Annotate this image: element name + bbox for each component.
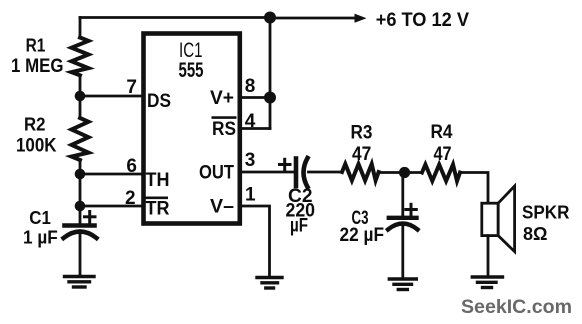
wire R2 bottom to node [79, 160, 82, 174]
svg-text:47: 47 [434, 144, 452, 165]
plus sign C1 [85, 212, 96, 223]
svg-text:R3: R3 [351, 122, 373, 143]
wire node to node [79, 174, 82, 206]
svg-text:22 µF: 22 µF [340, 225, 385, 246]
node junction pin8/supply [264, 92, 276, 104]
capacitor C3 [388, 218, 418, 278]
arrowhead supply [355, 14, 367, 23]
IC IC1 555 timer box [144, 34, 240, 224]
svg-text:1 MEG: 1 MEG [11, 55, 64, 77]
node junction supply top [264, 12, 276, 24]
ground C3 [389, 279, 416, 290]
svg-text:V+: V+ [210, 88, 234, 109]
svg-text:7: 7 [126, 77, 137, 98]
wire arrow shaft [270, 17, 356, 20]
wire node to R4 [405, 171, 423, 174]
wire supply vertical [269, 18, 272, 129]
wire pin7 [80, 95, 143, 98]
svg-text:R1: R1 [26, 35, 46, 56]
wire node to C3 [401, 173, 404, 217]
svg-text:R4: R4 [431, 122, 453, 143]
wire R3 to node [379, 171, 405, 174]
node junction R3/R4/C3 [399, 167, 410, 178]
capacitor C1 [64, 226, 97, 276]
wire pin2 [80, 205, 143, 208]
wire node to C1 [79, 206, 82, 225]
wire R4 to speaker [460, 173, 488, 204]
wire top supply rail [80, 16, 270, 19]
capacitor C2 [296, 158, 342, 187]
wire node to R2 [79, 96, 82, 118]
svg-text:SPKR: SPKR [522, 201, 570, 222]
plus sign C3 [406, 204, 417, 215]
svg-text:R2: R2 [24, 114, 46, 135]
svg-text:100K: 100K [16, 136, 57, 157]
svg-text:2: 2 [125, 188, 136, 209]
svg-text:8: 8 [245, 76, 256, 97]
svg-text:OUT: OUT [199, 163, 234, 184]
svg-text:TR: TR [146, 199, 170, 220]
svg-text:DS: DS [147, 91, 171, 112]
ground speaker [472, 277, 502, 288]
svg-text:6: 6 [126, 156, 137, 177]
svg-text:TH: TH [146, 170, 170, 191]
svg-text:+6 TO 12 V: +6 TO 12 V [376, 10, 470, 31]
svg-text:SeekIC.com: SeekIC.com [461, 296, 572, 318]
svg-text:4: 4 [245, 111, 256, 132]
node junction R1/R2/pin7 [75, 91, 86, 102]
node junction pin2/C1 [75, 201, 86, 212]
svg-text:1: 1 [245, 185, 256, 206]
wire pin3 OUT [240, 171, 294, 174]
plus sign C2 [280, 159, 291, 170]
ground C1 [65, 277, 95, 288]
wire R1 bottom to node [79, 75, 82, 96]
svg-text:8Ω: 8Ω [523, 223, 548, 244]
resistor R4 [422, 165, 460, 182]
speaker SPKR [482, 186, 515, 276]
svg-text:3: 3 [245, 150, 256, 171]
svg-text:47: 47 [352, 144, 371, 165]
wire pin4 [240, 127, 270, 130]
svg-text:V–: V– [210, 197, 234, 218]
resistor R3 [342, 164, 379, 181]
node junction R2/pin6 [75, 169, 86, 180]
svg-text:RS: RS [212, 119, 236, 140]
svg-text:1 µF: 1 µF [23, 227, 58, 248]
svg-text:C1: C1 [29, 208, 51, 228]
resistor R2 [72, 118, 89, 160]
wire pin1 to ground [240, 206, 270, 276]
svg-text:555: 555 [179, 58, 204, 82]
ground pin1 [257, 278, 282, 289]
wire left rail from top to R1 [79, 18, 82, 39]
wire pin8 [240, 96, 270, 99]
wire pin6 [80, 173, 143, 176]
svg-text:µF: µF [290, 216, 308, 237]
resistor R1 [72, 38, 89, 76]
